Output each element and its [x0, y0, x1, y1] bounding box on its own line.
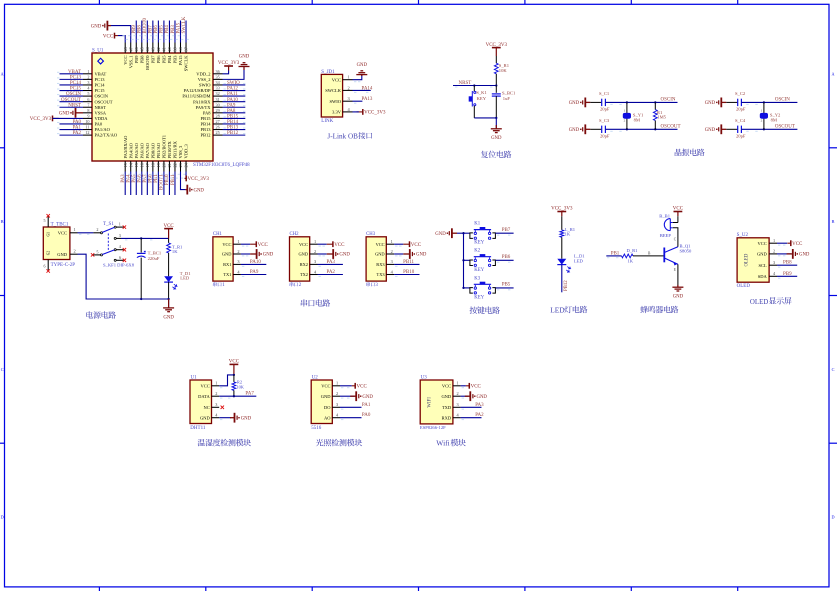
- wire U2 pin3: [777, 264, 797, 266]
- module U1 NC no-connect: [221, 406, 224, 409]
- wire to U1 pin 12: [60, 134, 84, 136]
- key switch K2: [470, 260, 473, 266]
- svg-text:J-Link OB: J-Link OB: [327, 132, 358, 140]
- switch S1 lever top: [102, 227, 114, 232]
- svg-text:PB13: PB13: [200, 127, 211, 132]
- svg-text:S_K1: S_K1: [476, 90, 487, 95]
- svg-text:GND: GND: [222, 252, 232, 257]
- svg-text:PB8: PB8: [138, 25, 143, 34]
- wire switch to VCC rail: [121, 237, 169, 239]
- svg-text:GND: GND: [163, 315, 174, 320]
- svg-text:LED: LED: [574, 258, 584, 263]
- svg-text:VBAT: VBAT: [68, 70, 81, 75]
- ground GND at U1 VSS_3: [186, 185, 188, 195]
- title buzzer circuit: [640, 306, 648, 313]
- switch S1 pin1 no-connect: [116, 226, 123, 228]
- wire to U1 pin 4: [60, 90, 84, 92]
- svg-text:31: 31: [216, 97, 220, 102]
- svg-text:DATA: DATA: [198, 394, 210, 399]
- svg-text:PB15: PB15: [200, 116, 211, 121]
- svg-text:K2: K2: [474, 249, 480, 254]
- svg-text:48: 48: [123, 47, 128, 51]
- mcu U1 left pins 1-12: [83, 73, 92, 75]
- wire U3 pin1: [461, 385, 466, 387]
- svg-text:19: 19: [156, 163, 161, 167]
- wire OSCOUT: [741, 128, 797, 130]
- svg-text:21: 21: [167, 163, 172, 167]
- mcu U1 pin-1 diamond marker: [98, 58, 104, 64]
- svg-text:PA8: PA8: [203, 110, 211, 115]
- switch S1 lever bottom: [102, 250, 114, 255]
- wire to reset GND: [495, 118, 497, 129]
- svg-text:38: 38: [178, 47, 183, 51]
- wire to U1 pin 3: [60, 84, 84, 86]
- wire emitter to GND: [677, 264, 679, 287]
- junction crystal bottom: [763, 128, 765, 130]
- power VCC at CH2: [332, 241, 334, 247]
- wire CH2 pin1: [318, 243, 327, 245]
- wire from U1 pin 46: [135, 21, 137, 43]
- ground GND at light module: [355, 391, 357, 401]
- power VCC at CH1: [255, 241, 257, 247]
- svg-text:PB11/RX: PB11/RX: [173, 140, 178, 158]
- title serial circuit: [301, 299, 308, 306]
- svg-text:OSCIN: OSCIN: [95, 94, 109, 99]
- ground GND crystal top-left: [584, 98, 586, 108]
- svg-text:A: A: [831, 71, 834, 76]
- wire TBC1 VCC to switch: [78, 232, 94, 234]
- svg-text:AO: AO: [324, 415, 331, 420]
- svg-text:GND: GND: [705, 101, 716, 106]
- wire to U1 pin 1: [60, 73, 84, 75]
- wire to key S_K1: [473, 86, 475, 92]
- svg-text:2: 2: [215, 391, 217, 396]
- power VCC buzzer: [674, 211, 683, 213]
- svg-text:6: 6: [87, 97, 89, 102]
- svg-text:23: 23: [178, 163, 183, 167]
- svg-text:RX3: RX3: [376, 262, 385, 267]
- svg-text:S_C4: S_C4: [735, 118, 746, 123]
- svg-text:RX1: RX1: [223, 262, 231, 267]
- svg-text:VCC: VCC: [103, 34, 114, 39]
- svg-text:2: 2: [314, 249, 316, 254]
- led L_D1: [557, 259, 566, 265]
- svg-text:VCC: VCC: [321, 383, 330, 388]
- svg-text:TXD: TXD: [442, 405, 452, 410]
- svg-text:3.3V: 3.3V: [332, 110, 342, 115]
- connector CH2 body: [290, 237, 310, 281]
- svg-text:BOOT1: BOOT1: [160, 174, 165, 190]
- junction key bus K2: [462, 259, 464, 261]
- wire U1 GND: [219, 417, 231, 419]
- svg-text:K3: K3: [474, 276, 480, 281]
- svg-text:PA4/AO: PA4/AO: [128, 142, 133, 158]
- connector CH3 sub label: [366, 282, 370, 287]
- svg-text:D: D: [1, 515, 4, 520]
- module U1 pins 1-4: [212, 385, 220, 387]
- svg-text:S_C2: S_C2: [735, 91, 746, 96]
- connector CH2 pins 1-4: [310, 243, 318, 245]
- svg-text:PB5: PB5: [160, 25, 165, 34]
- svg-text:PB4: PB4: [167, 55, 172, 64]
- svg-text:PA3/RX/AO: PA3/RX/AO: [123, 135, 128, 159]
- wire from U1 pin 39: [174, 21, 176, 43]
- svg-text:35: 35: [216, 74, 220, 79]
- svg-text:3: 3: [87, 80, 89, 85]
- junction key bus K1: [462, 232, 464, 234]
- svg-text:7: 7: [87, 102, 89, 107]
- svg-text:PC15: PC15: [70, 87, 82, 92]
- svg-text:PC13: PC13: [70, 75, 82, 80]
- svg-text:33: 33: [216, 86, 220, 91]
- ground GND at JD1 pin1: [361, 75, 363, 76]
- svg-text:20pF: 20pF: [600, 133, 610, 138]
- junction at cap T_BC1: [140, 237, 142, 239]
- wire U2 pin1: [340, 385, 352, 387]
- svg-text:PB12: PB12: [200, 133, 210, 138]
- svg-text:C: C: [1, 367, 4, 372]
- capacitor S_C3 20pF: [601, 126, 603, 133]
- connector CH1 pins 1-4: [233, 243, 241, 245]
- svg-text:1: 1: [348, 75, 350, 80]
- switch S1 pole contacts: [101, 232, 103, 234]
- wire U1 VSS_1 to GND: [111, 26, 131, 43]
- svg-text:22: 22: [173, 163, 178, 167]
- svg-text:PA2/TX/AO: PA2/TX/AO: [95, 133, 118, 138]
- svg-text:BOOT0: BOOT0: [143, 17, 148, 33]
- ground GND at CH2: [332, 249, 334, 259]
- power VCC_3V3 at reset: [492, 47, 501, 49]
- wire CH1 pin1: [241, 243, 250, 245]
- svg-text:KEY: KEY: [474, 241, 484, 246]
- svg-text:GND: GND: [59, 112, 70, 117]
- wire R1 to NRST node: [495, 74, 497, 86]
- connector TBC1 body: [43, 227, 70, 260]
- wire CH2 pin4: [318, 274, 343, 276]
- svg-text:PA2: PA2: [327, 270, 336, 275]
- wire from U1 pin 38: [180, 21, 182, 43]
- svg-text:PA3: PA3: [121, 174, 126, 183]
- power VCC_3V3 at JD1 pin4: [362, 109, 364, 115]
- wire from U1 pin 22: [174, 172, 176, 196]
- wire from U1 pin 42: [157, 21, 159, 43]
- wire to power GND: [168, 299, 170, 308]
- svg-text:PA1: PA1: [362, 403, 371, 408]
- wire U1 VCC up: [219, 375, 234, 386]
- svg-text:VCC: VCC: [673, 207, 684, 212]
- svg-text:PA2: PA2: [73, 131, 82, 136]
- svg-text:TX3: TX3: [377, 272, 386, 277]
- svg-text:PB6: PB6: [154, 25, 159, 34]
- svg-text:OSCIN: OSCIN: [66, 92, 81, 97]
- svg-text:PB13: PB13: [227, 126, 239, 131]
- svg-text:OLED: OLED: [745, 253, 750, 266]
- svg-text:9: 9: [87, 114, 89, 119]
- svg-text:GND: GND: [757, 252, 767, 257]
- power VCC at DHT11: [230, 363, 239, 365]
- svg-text:1: 1: [336, 381, 338, 386]
- svg-text:GND: GND: [799, 253, 810, 258]
- svg-text:PB1/AO: PB1/AO: [156, 142, 161, 158]
- svg-text:LED: LED: [550, 306, 565, 315]
- ground GND crystal bottom-left: [584, 124, 586, 134]
- svg-text:GND: GND: [194, 188, 205, 193]
- wire from U1 pin 33: [223, 90, 246, 92]
- svg-text:GND: GND: [477, 395, 488, 400]
- wire from U1 pin 43: [152, 21, 154, 43]
- module U2 pins 1-4: [332, 385, 340, 387]
- svg-text:K1: K1: [474, 222, 480, 227]
- switch S1 pin2 lead: [93, 232, 100, 234]
- svg-text:TX2: TX2: [300, 272, 308, 277]
- wire to cap T_BC1: [140, 238, 142, 252]
- wire key to bottom: [473, 106, 475, 118]
- sheet zone tick marks: [98, 0, 100, 4]
- svg-text:OSCOUT: OSCOUT: [61, 98, 81, 103]
- wire from U1 pin 40: [168, 21, 170, 43]
- svg-text:20pF: 20pF: [600, 106, 610, 111]
- svg-text:PB12: PB12: [564, 280, 569, 291]
- svg-text:SWCLK: SWCLK: [182, 16, 187, 33]
- wire LED to bottom rail: [168, 282, 170, 299]
- wire cap branch upper: [495, 86, 497, 93]
- wire from U1 pin 16: [141, 172, 143, 196]
- wire to U1 pin 2: [60, 78, 84, 80]
- title temperature-humidity module: [198, 439, 206, 446]
- wire L_D1 to net: [561, 265, 563, 293]
- junction crystal top: [763, 101, 765, 103]
- ground GND at U1 VSS_2: [243, 67, 245, 71]
- wire U1 VDD_3 to VCC_3V3: [185, 172, 186, 179]
- svg-text:1K: 1K: [172, 249, 178, 254]
- svg-text:PA11/USB/DM: PA11/USB/DM: [182, 94, 210, 99]
- svg-text:PA0: PA0: [73, 120, 82, 125]
- svg-text:G2: G2: [47, 251, 51, 256]
- svg-text:2: 2: [624, 119, 626, 123]
- connector JD1 body: [321, 74, 342, 117]
- svg-text:Wifi: Wifi: [436, 439, 449, 448]
- svg-text:42: 42: [156, 47, 161, 51]
- svg-text:OSCOUT: OSCOUT: [95, 99, 113, 104]
- svg-text:OSCOUT: OSCOUT: [775, 125, 795, 130]
- svg-text:LED: LED: [180, 276, 190, 281]
- svg-text:T_S1: T_S1: [103, 222, 114, 227]
- wire from U1 pin 34: [223, 84, 246, 86]
- wire U2 pin4: [777, 275, 797, 277]
- svg-text:PA3: PA3: [475, 403, 484, 408]
- svg-text:OLED: OLED: [750, 299, 768, 306]
- ground GND at OLED: [792, 249, 794, 259]
- wire U3 RXD: [461, 417, 482, 419]
- wire from U1 pin 20: [163, 172, 165, 196]
- svg-text:VDDA: VDDA: [95, 116, 109, 121]
- svg-text:40: 40: [167, 47, 172, 51]
- svg-text:PB2/BOOT1: PB2/BOOT1: [162, 135, 167, 159]
- mcu U1 body: [92, 53, 213, 161]
- svg-text:1: 1: [624, 109, 626, 113]
- svg-text:WIFI: WIFI: [428, 397, 433, 408]
- svg-text:PB9: PB9: [132, 25, 137, 34]
- ground GND crystal bottom-left: [720, 124, 722, 134]
- svg-text:PC15: PC15: [95, 88, 106, 93]
- svg-text:VCC: VCC: [201, 383, 210, 388]
- ground GND reset: [495, 125, 497, 129]
- wire U3 TXD: [461, 406, 482, 408]
- wire OSCIN: [741, 101, 797, 103]
- ground GND at wifi: [469, 391, 471, 401]
- svg-text:PB7: PB7: [149, 25, 154, 34]
- wire VCC to L_R1: [561, 216, 563, 230]
- svg-text:VCC: VCC: [357, 385, 368, 390]
- svg-text:SDA: SDA: [758, 274, 768, 279]
- junction DATA R2: [233, 395, 235, 397]
- svg-text:DO: DO: [324, 405, 331, 410]
- svg-text:SWCLK: SWCLK: [184, 55, 189, 72]
- wire VCC_3V3 to R1: [495, 56, 497, 63]
- svg-text:GND: GND: [200, 415, 210, 420]
- resistor T_R1 1K: [167, 243, 171, 253]
- wire JD1 pin2: [353, 89, 371, 91]
- svg-text:PB3: PB3: [171, 25, 176, 34]
- transistor B_Q1 S8050: [663, 248, 665, 263]
- svg-text:VCC: VCC: [123, 56, 128, 65]
- module U3 body: [420, 380, 453, 424]
- svg-text:36: 36: [216, 69, 220, 74]
- svg-text:PA15: PA15: [178, 55, 183, 66]
- svg-text:VCC: VCC: [792, 242, 803, 247]
- svg-text:RXD: RXD: [442, 415, 452, 420]
- svg-text:16: 16: [139, 163, 144, 167]
- svg-text:20pF: 20pF: [736, 106, 746, 111]
- svg-text:KEY: KEY: [477, 96, 487, 101]
- svg-text:PB14: PB14: [227, 120, 239, 125]
- svg-text:PB9: PB9: [134, 55, 139, 64]
- svg-text:PA0: PA0: [95, 122, 103, 127]
- wire K1 to net: [495, 232, 513, 234]
- svg-text:10: 10: [85, 119, 89, 124]
- svg-text:20: 20: [162, 163, 167, 167]
- title light module: [316, 439, 324, 446]
- svg-text:10K: 10K: [499, 68, 508, 73]
- ground GND buzzer: [677, 285, 679, 287]
- svg-text:B: B: [1, 219, 4, 224]
- wire U2 DO: [340, 406, 362, 408]
- svg-text:1: 1: [237, 239, 239, 244]
- wire U1 VSS_3 to GND: [181, 172, 186, 190]
- svg-text:PA3: PA3: [327, 260, 336, 265]
- svg-text:25: 25: [216, 130, 220, 135]
- svg-text:BOOT0: BOOT0: [145, 55, 150, 70]
- svg-text:PA10: PA10: [227, 98, 238, 103]
- svg-text:3: 3: [457, 402, 459, 407]
- svg-text:6: 6: [44, 264, 46, 269]
- wire from U1 pin 15: [135, 172, 137, 196]
- svg-text:PA7/AO: PA7/AO: [145, 142, 150, 158]
- capacitor S_BC1: [492, 93, 501, 95]
- wire CH1 pin4: [241, 274, 266, 276]
- wire from U1 pin 26: [223, 129, 246, 131]
- svg-text:NRST: NRST: [95, 105, 107, 110]
- wire U1 VCC pin48 to VCC: [118, 36, 125, 43]
- svg-text:TYPE-C-2P: TYPE-C-2P: [51, 263, 76, 268]
- wire crystal leads: [626, 102, 628, 113]
- resistor L_R1 1K: [560, 230, 564, 237]
- wire U2 pin2: [777, 253, 791, 255]
- svg-text:VCC: VCC: [299, 242, 308, 247]
- svg-text:S_C3: S_C3: [599, 118, 610, 123]
- svg-text:TX1: TX1: [223, 272, 231, 277]
- wire to U1 pin 6: [60, 101, 84, 103]
- svg-text:3: 3: [237, 259, 239, 264]
- svg-text:KEY: KEY: [474, 295, 484, 300]
- svg-text:D_R1: D_R1: [627, 248, 639, 253]
- switch S1 pin3 lead: [116, 237, 121, 239]
- svg-text:OSCIN: OSCIN: [661, 98, 676, 103]
- display U2 body: [737, 238, 769, 282]
- svg-text:27: 27: [216, 119, 220, 124]
- wire CH3 pin1: [394, 243, 403, 245]
- svg-text:OSCOUT: OSCOUT: [661, 125, 681, 130]
- svg-text:PA12: PA12: [227, 87, 238, 92]
- wire U2 pin1: [777, 242, 787, 244]
- wire resistor to LED T_D1: [168, 253, 170, 276]
- svg-text:S_C1: S_C1: [599, 91, 610, 96]
- connector CH2 sub label: [290, 282, 294, 287]
- svg-text:S_KF1 DIP-6X8: S_KF1 DIP-6X8: [103, 263, 135, 268]
- wire R2 top lead: [233, 375, 235, 382]
- svg-text:C: C: [832, 367, 835, 372]
- svg-text:3: 3: [773, 260, 775, 265]
- wire JD1 pin3: [353, 100, 363, 102]
- svg-text:20pF: 20pF: [736, 133, 746, 138]
- wire CH3 pin2: [394, 253, 403, 255]
- svg-text:VCC: VCC: [411, 243, 422, 248]
- svg-text:VCC_3V3: VCC_3V3: [551, 207, 573, 212]
- svg-text:PA9/TX: PA9/TX: [196, 105, 212, 110]
- module U3 pins 1-4: [453, 385, 461, 387]
- svg-text:PA12/USB/DP: PA12/USB/DP: [184, 88, 211, 93]
- svg-text:2: 2: [457, 391, 459, 396]
- svg-text:2: 2: [96, 227, 98, 232]
- svg-text:GND: GND: [375, 252, 385, 257]
- svg-text:PA15: PA15: [176, 22, 181, 33]
- svg-text:1: 1: [215, 381, 217, 386]
- svg-text:15: 15: [134, 163, 139, 167]
- mcu U1 right pins 36-25: [213, 73, 223, 75]
- power VCC_3V3 at U1 VDD_2: [224, 65, 233, 67]
- svg-text:S8050: S8050: [680, 248, 692, 253]
- svg-text:VCC: VCC: [758, 241, 767, 246]
- svg-text:GND: GND: [673, 295, 684, 300]
- svg-text:B_B1: B_B1: [659, 214, 670, 219]
- ground GND at CH3: [409, 249, 411, 259]
- svg-text:SWCLK: SWCLK: [325, 88, 342, 93]
- power VCC at light module: [354, 383, 356, 389]
- svg-text:VCC: VCC: [332, 77, 341, 82]
- capacitor S_C2 20pF: [737, 99, 739, 106]
- svg-text:VCC: VCC: [258, 243, 269, 248]
- wire from U1 pin 21: [168, 172, 170, 196]
- module U2 body: [311, 380, 332, 424]
- wire JD1 pin1 to GND: [353, 75, 362, 80]
- key switch K3: [470, 288, 473, 294]
- capacitor T_BC1 220uF: [137, 252, 146, 254]
- wire from U1 pin 17: [146, 172, 148, 196]
- wire bus to K2: [464, 259, 470, 261]
- wire R1 leads: [654, 102, 656, 109]
- junction at key branch: [473, 84, 475, 86]
- svg-text:PB5: PB5: [502, 283, 511, 288]
